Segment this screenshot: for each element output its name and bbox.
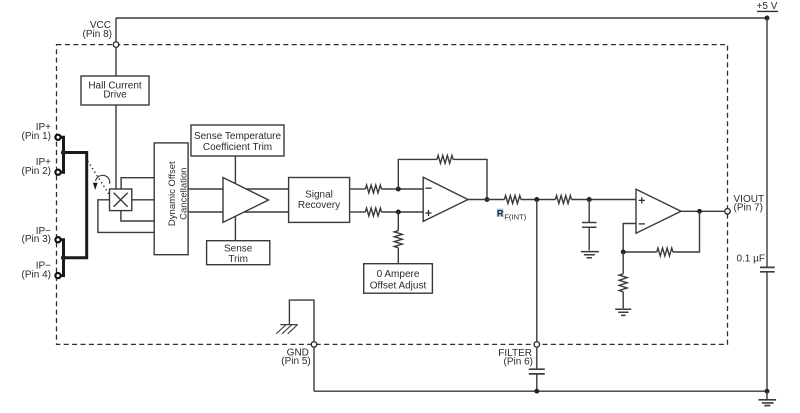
arrow magnetic coupling dotted [88,162,109,195]
wire +5V vertical rail [766,18,768,391]
wire hall top to DOC [121,178,154,189]
wire GND pin runs [289,300,314,391]
node +5V junction [765,16,770,21]
svg-text:(Pin 5): (Pin 5) [281,356,310,367]
wire buffer output [681,210,724,212]
resistor R3 series [555,196,571,204]
power +5V label [757,1,778,12]
wire A2 output run [468,199,636,201]
wire buffer minus input [623,224,636,253]
pin terminal circles IP1-IP4 [55,135,60,279]
wire IP conductor loop (thick) [61,137,86,275]
svg-text:(Pin 7): (Pin 7) [734,203,763,214]
wire hall right to DOC [132,199,154,201]
svg-text:+5 V: +5 V [757,1,778,12]
wire VCC pin stub [115,18,117,189]
resistor R 0A vertical [394,231,402,248]
svg-text:F(INT): F(INT) [504,212,526,221]
svg-text:(Pin 4): (Pin 4) [22,269,51,280]
wire hall left wrap to DOC [98,200,154,233]
pin IP- (Pin 4) [22,261,52,281]
node A2 non-inverting input [396,210,401,215]
pin VIOUT (Pin 7) [725,194,764,214]
resistor R5 to ground [619,252,627,308]
svg-text:Offset Adjust: Offset Adjust [370,280,427,291]
resistor RF(INT) [504,196,521,204]
node filter junction [534,197,539,202]
block Signal Recovery [289,178,350,223]
wire bottom ground rail [314,390,767,392]
hall element X [110,189,132,211]
svg-text:(Pin 8): (Pin 8) [83,29,112,40]
capacitor bypass 0.1 uF [736,254,774,272]
node IP12 junction [61,150,66,155]
pin VCC (Pin 8) [83,20,119,48]
node divider junction [621,250,626,255]
capacitor internal C [582,200,597,251]
pin IP+ (Pin 1) [22,122,52,142]
svg-text:Sense: Sense [224,243,253,254]
svg-text:Trim: Trim [228,254,248,265]
op-amp A3 buffer [636,189,681,233]
wire signal path bottom [188,211,289,213]
svg-text:R: R [497,208,504,218]
capacitor filter external [529,369,545,374]
ground chassis internal [276,325,297,334]
wire signal path top [188,188,289,190]
pin FILTER (Pin 6) [498,342,539,368]
svg-text:(Pin 3): (Pin 3) [22,234,51,245]
block Sense Temperature Coefficient Trim [191,125,284,156]
resistor R4 feedback [657,248,673,256]
svg-text:Drive: Drive [103,90,127,101]
ground supply [759,391,777,405]
resistor R2 bottom [350,208,423,216]
node buffer input junction [587,197,592,202]
ground buffer divider [615,309,631,315]
block 0 Ampere Offset Adjust [364,264,433,294]
block Hall Current Drive [81,76,149,105]
wire zero ampere branch [397,212,399,264]
node IP34 junction [61,255,66,260]
arrow rotation [93,175,110,190]
svg-text:Recovery: Recovery [298,200,340,211]
resistor R1 top [350,185,423,193]
pin GND (Pin 5) [281,342,316,368]
wire hall bottom to DOC [121,211,154,221]
wire trim vertical [234,156,236,241]
block Sense Trim [207,241,270,266]
node buffer output junction [697,209,702,214]
op-amp A2 [423,177,468,221]
svg-text:Signal: Signal [305,189,333,200]
svg-text:(Pin 6): (Pin 6) [504,357,533,368]
node filter cap to rail [534,389,539,394]
pin IP- (Pin 3) [22,226,52,245]
svg-text:(Pin 1): (Pin 1) [22,131,51,142]
svg-text:Cancellation: Cancellation [178,168,189,220]
pin IP+ (Pin 2) [22,157,52,177]
amplifier A1 [223,178,269,223]
node A2 inverting input [396,187,401,192]
wire to FILTER pin [536,200,538,392]
svg-text:Coefficient Trim: Coefficient Trim [203,142,272,153]
node A2 output [485,197,490,202]
svg-text:0.1 µF: 0.1 µF [736,254,765,265]
wire top supply rail [116,17,767,19]
block Dynamic Offset Cancellation [154,143,189,255]
svg-text:Sense Temperature: Sense Temperature [194,131,282,142]
svg-text:Dynamic Offset: Dynamic Offset [167,161,178,226]
IC boundary dashed box [57,45,728,345]
node bottom-right junction [765,389,770,394]
label RF(INT) [497,208,527,221]
wire feedback loop [398,159,487,199]
svg-text:0 Ampere: 0 Ampere [377,269,420,280]
wire buffer feedback [623,211,699,252]
svg-text:(Pin 2): (Pin 2) [22,166,51,177]
ground internal cap [581,252,599,258]
resistor RF feedback [437,155,453,163]
